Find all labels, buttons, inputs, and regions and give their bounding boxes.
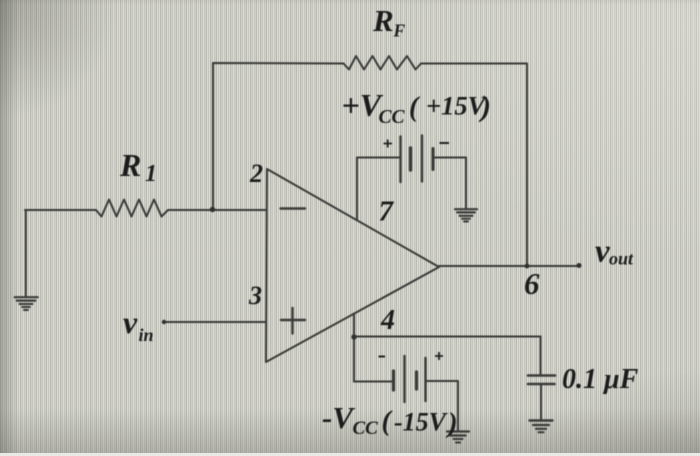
- svg-text:0.1 μF: 0.1 μF: [562, 364, 639, 395]
- svg-text:+15V: +15V: [426, 91, 488, 121]
- svg-text:-V: -V: [322, 400, 355, 435]
- svg-text:1: 1: [145, 161, 157, 187]
- svg-text:7: 7: [379, 196, 395, 228]
- svg-text:2: 2: [249, 159, 263, 188]
- svg-text:v: v: [595, 234, 610, 270]
- svg-text:-15V: -15V: [394, 408, 449, 437]
- svg-text:): ): [445, 407, 458, 439]
- svg-text:out: out: [609, 249, 634, 269]
- svg-text:v: v: [123, 304, 138, 340]
- svg-text:F: F: [393, 21, 406, 41]
- svg-text:4: 4: [380, 305, 395, 336]
- svg-text:CC: CC: [353, 418, 379, 439]
- svg-text:(: (: [382, 406, 393, 437]
- svg-text:+V: +V: [342, 87, 384, 123]
- svg-text:6: 6: [524, 266, 540, 301]
- svg-text:R: R: [372, 3, 394, 38]
- svg-text:R: R: [119, 147, 141, 183]
- svg-text:CC: CC: [379, 107, 406, 128]
- svg-text:3: 3: [248, 281, 262, 310]
- svg-text:in: in: [139, 325, 154, 345]
- svg-text:(: (: [409, 92, 420, 123]
